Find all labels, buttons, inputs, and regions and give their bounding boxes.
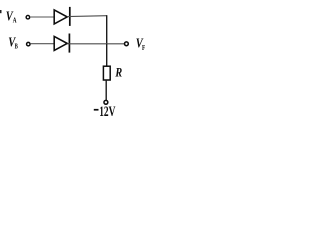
svg-text:F: F xyxy=(142,43,145,52)
svg-text:B: B xyxy=(15,41,18,50)
wire node to resistor xyxy=(106,44,108,67)
output wire to VF xyxy=(67,43,124,45)
bullet fragment at left edge xyxy=(0,10,2,13)
svg-text:A: A xyxy=(13,16,17,25)
resistor R xyxy=(103,66,110,80)
svg-text:R: R xyxy=(115,65,123,80)
supply terminal xyxy=(104,100,108,104)
wire resistor to supply xyxy=(105,80,107,100)
svg-text:12V: 12V xyxy=(99,104,115,120)
label VF xyxy=(136,36,146,52)
label -12V minus sign xyxy=(94,109,99,111)
wire A xyxy=(30,16,54,18)
label VB xyxy=(8,35,18,50)
diode D2 xyxy=(54,34,69,53)
input terminal B xyxy=(27,42,31,46)
output terminal VF xyxy=(125,42,129,46)
wire B xyxy=(31,43,55,45)
input terminal A xyxy=(26,15,30,19)
vertical wire from corner to node xyxy=(106,15,108,44)
wire D1 to corner xyxy=(67,15,107,18)
label VA xyxy=(6,10,17,25)
diode D1 xyxy=(54,7,70,26)
